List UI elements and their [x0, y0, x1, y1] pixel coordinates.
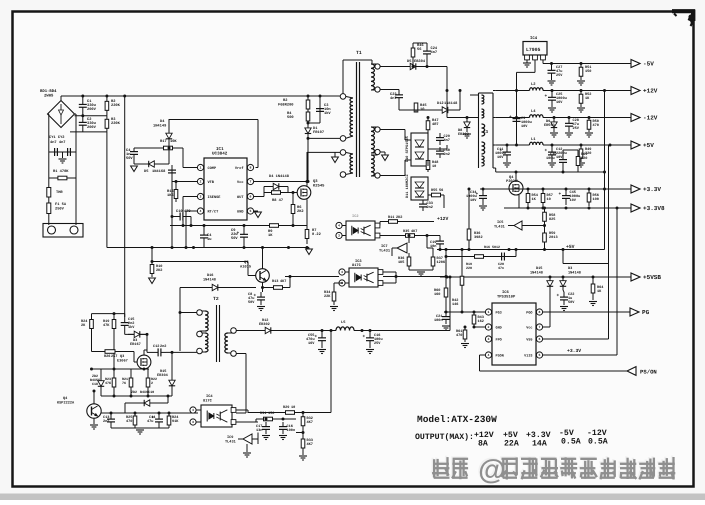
svg-text:+12V: +12V: [437, 216, 448, 222]
svg-text:TL431: TL431: [494, 225, 505, 230]
svg-text:2n2: 2n2: [427, 205, 433, 210]
svg-text:R2: R2: [283, 98, 287, 103]
svg-text:2K2: 2K2: [156, 268, 162, 273]
svg-text:+: +: [545, 94, 548, 99]
svg-text:C12: C12: [153, 344, 159, 349]
svg-text:PS/ON: PS/ON: [640, 369, 657, 376]
svg-text:4R7: 4R7: [432, 122, 439, 127]
svg-text:T1: T1: [356, 50, 362, 56]
svg-text:IC4: IC4: [530, 36, 538, 41]
svg-text:6: 6: [539, 337, 541, 341]
svg-text:R26: R26: [104, 354, 110, 359]
svg-text:13n: 13n: [256, 428, 262, 433]
svg-text:D3: D3: [568, 266, 572, 271]
svg-text:2n2: 2n2: [444, 152, 450, 157]
svg-text:4n7: 4n7: [431, 50, 438, 55]
svg-text:8: 8: [250, 166, 252, 170]
svg-text:+5VSB: +5VSB: [643, 274, 661, 281]
svg-text:1N4148: 1N4148: [530, 271, 543, 276]
svg-text:TPS3510P: TPS3510P: [497, 295, 516, 300]
svg-text:16V: 16V: [308, 341, 315, 346]
svg-text:ER304: ER304: [157, 373, 169, 378]
svg-text:4: 4: [338, 224, 340, 228]
svg-text:4: 4: [488, 353, 490, 357]
svg-text:+: +: [315, 334, 318, 339]
svg-text:470: 470: [184, 209, 191, 214]
svg-text:50V: 50V: [231, 236, 238, 241]
svg-text:+3.3V: +3.3V: [643, 186, 661, 193]
svg-text:EB304: EB304: [414, 59, 426, 64]
svg-text:L3: L3: [483, 130, 489, 135]
svg-text:100: 100: [593, 197, 599, 202]
svg-text:100u: 100u: [546, 156, 555, 161]
svg-text:D4 1N4148: D4 1N4148: [269, 174, 290, 179]
svg-text:4: 4: [192, 408, 194, 412]
svg-text:+5V: +5V: [643, 142, 654, 149]
svg-text:K2545: K2545: [313, 184, 325, 189]
svg-text:220: 220: [466, 266, 472, 271]
svg-text:220K: 220K: [111, 121, 121, 126]
svg-text:10: 10: [432, 164, 436, 169]
svg-text:D12: D12: [437, 101, 444, 106]
svg-text:VFB: VFB: [208, 180, 215, 185]
svg-text:470: 470: [126, 419, 132, 424]
svg-text:817C: 817C: [203, 399, 213, 404]
svg-text:R35: R35: [403, 229, 409, 234]
svg-text:PG: PG: [642, 309, 650, 316]
svg-text:T2: T2: [213, 296, 219, 302]
svg-text:47K: 47K: [103, 323, 110, 328]
svg-text:ER553: ER553: [544, 123, 555, 128]
svg-text:R31: R31: [260, 411, 266, 416]
svg-text:D4: D4: [160, 119, 165, 124]
svg-text:3: 3: [200, 195, 202, 199]
svg-text:825: 825: [549, 217, 555, 222]
svg-text:1K5: 1K5: [398, 260, 404, 265]
svg-text:16V: 16V: [556, 100, 563, 105]
svg-text:200V: 200V: [87, 125, 97, 130]
svg-text:2n2: 2n2: [103, 419, 109, 424]
svg-text:120K: 120K: [437, 260, 446, 265]
svg-text:14A: 14A: [532, 440, 547, 449]
svg-text:Q3: Q3: [313, 179, 318, 184]
svg-text:4K7: 4K7: [411, 229, 417, 234]
svg-text:L5: L5: [341, 320, 346, 325]
svg-text:FPO: FPO: [496, 337, 502, 342]
svg-text:ER167: ER167: [130, 342, 141, 347]
svg-text:162: 162: [478, 319, 484, 324]
svg-text:E3067: E3067: [117, 359, 128, 364]
svg-text:IC5: IC5: [497, 220, 503, 225]
svg-text:16V: 16V: [497, 155, 504, 160]
svg-text:R29: R29: [283, 405, 289, 410]
svg-text:91K: 91K: [172, 419, 179, 424]
svg-text:1kV: 1kV: [128, 325, 135, 330]
svg-text:D15: D15: [536, 266, 542, 271]
svg-text:10K: 10K: [170, 139, 177, 144]
svg-text:TL431: TL431: [225, 440, 236, 445]
svg-text:GND: GND: [496, 325, 502, 330]
svg-text:1: 1: [488, 310, 490, 314]
svg-text:220K: 220K: [111, 103, 121, 108]
svg-text:FR107: FR107: [313, 130, 324, 135]
svg-text:6: 6: [250, 195, 252, 199]
svg-text:1kV: 1kV: [324, 111, 331, 116]
svg-text:+: +: [509, 115, 512, 120]
svg-text:2W05: 2W05: [44, 94, 54, 99]
svg-text:2n2: 2n2: [160, 344, 166, 349]
svg-text:150: 150: [585, 69, 591, 74]
svg-text:D16: D16: [207, 273, 213, 278]
svg-text:L7905: L7905: [526, 47, 541, 53]
svg-text:1N4148: 1N4148: [203, 278, 216, 283]
svg-text:3: 3: [338, 234, 340, 238]
svg-text:R11: R11: [388, 215, 394, 220]
svg-text:1N4149: 1N4149: [153, 124, 166, 129]
svg-text:D11 100MZCZ: D11 100MZCZ: [405, 174, 410, 198]
svg-text:2K7: 2K7: [111, 354, 117, 359]
svg-text:B4X9C10: B4X9C10: [140, 390, 154, 395]
svg-text:OUTPUT(MAX):: OUTPUT(MAX):: [415, 433, 474, 442]
svg-text:+3.3V: +3.3V: [567, 348, 581, 354]
svg-text:76: 76: [122, 381, 126, 386]
svg-text:220: 220: [581, 156, 587, 161]
svg-text:+: +: [557, 294, 560, 299]
svg-text:2: 2: [200, 180, 202, 184]
svg-text:50V: 50V: [126, 156, 133, 161]
svg-text:D5: D5: [144, 169, 149, 174]
svg-text:KSP2222A: KSP2222A: [57, 401, 75, 406]
svg-text:C18: C18: [92, 382, 98, 387]
svg-text:R55: R55: [431, 188, 437, 193]
svg-text:100n: 100n: [434, 318, 443, 323]
svg-text:IC9: IC9: [227, 435, 233, 440]
svg-text:47n: 47n: [498, 266, 504, 271]
svg-text:PG3: PG3: [496, 310, 502, 315]
svg-text:TL431: TL431: [379, 249, 391, 254]
svg-text:IC2: IC2: [352, 214, 359, 219]
svg-text:56: 56: [439, 188, 443, 193]
svg-text:+3.3V8: +3.3V8: [643, 205, 665, 212]
svg-text:3: 3: [488, 337, 490, 341]
svg-text:ZD2: ZD2: [131, 390, 137, 395]
svg-text:1N4148: 1N4148: [568, 271, 581, 276]
svg-text:25V: 25V: [556, 73, 563, 78]
svg-text:R8 47: R8 47: [272, 198, 283, 203]
svg-text:7: 7: [250, 180, 252, 184]
svg-text:2: 2: [488, 325, 490, 329]
svg-text:146: 146: [452, 302, 458, 307]
svg-text:1: 1: [200, 166, 202, 170]
svg-text:+: +: [545, 149, 548, 154]
svg-text:D5: D5: [407, 59, 412, 64]
svg-text:3982: 3982: [474, 235, 483, 240]
svg-text:8A: 8A: [478, 440, 488, 449]
svg-text:Vcc: Vcc: [526, 325, 532, 330]
svg-text:Model:ATX-230W: Model:ATX-230W: [417, 414, 497, 425]
svg-text:OUT: OUT: [237, 195, 244, 200]
svg-text:150: 150: [268, 411, 274, 416]
svg-text:4n7: 4n7: [390, 96, 397, 101]
svg-text:P3020L: P3020L: [506, 179, 520, 184]
svg-text:3: 3: [192, 420, 194, 424]
svg-text:+: +: [363, 334, 366, 339]
svg-text:470: 470: [593, 123, 599, 128]
svg-text:5: 5: [250, 209, 252, 213]
svg-text:10: 10: [547, 197, 551, 202]
svg-text:1N4168: 1N4168: [152, 169, 166, 174]
svg-text:1K5: 1K5: [167, 193, 174, 198]
svg-text:UC3842: UC3842: [212, 152, 228, 157]
svg-text:@: @: [478, 454, 505, 485]
svg-text:47K: 47K: [105, 381, 112, 386]
svg-text:0.22: 0.22: [312, 232, 321, 237]
svg-text:L2: L2: [531, 82, 536, 87]
svg-text:56: 56: [417, 47, 421, 52]
svg-text:22A: 22A: [504, 440, 519, 449]
svg-text:1N4148: 1N4148: [444, 101, 458, 106]
svg-text:F1 5A: F1 5A: [55, 202, 67, 207]
svg-text:5: 5: [539, 353, 541, 357]
svg-text:22K: 22K: [324, 294, 331, 299]
svg-text:4: 4: [341, 270, 343, 274]
svg-text:V133: V133: [524, 353, 532, 358]
svg-text:PGO: PGO: [526, 310, 532, 315]
svg-text:+12V: +12V: [643, 88, 658, 95]
svg-text:100n: 100n: [287, 428, 296, 433]
svg-text:4n7: 4n7: [444, 138, 450, 143]
svg-text:CY1 CY2: CY1 CY2: [49, 135, 65, 140]
svg-text:V55: V55: [526, 337, 532, 342]
svg-text:4K7: 4K7: [307, 420, 313, 425]
svg-text:10: 10: [291, 405, 295, 410]
svg-text:7: 7: [539, 325, 541, 329]
svg-text:IC6: IC6: [502, 290, 510, 295]
svg-text:ER302: ER302: [259, 322, 270, 327]
svg-text:Vcc: Vcc: [237, 180, 243, 185]
svg-text:+: +: [559, 192, 562, 197]
svg-text:RT/CT: RT/CT: [208, 209, 220, 214]
svg-text:2K2: 2K2: [297, 209, 304, 214]
svg-text:C10: C10: [176, 209, 183, 214]
svg-text:250V: 250V: [55, 207, 65, 212]
svg-text:1u: 1u: [207, 237, 211, 242]
svg-text:200V: 200V: [87, 107, 97, 112]
svg-text:10V: 10V: [570, 198, 577, 203]
svg-text:ISENSE: ISENSE: [208, 195, 221, 200]
svg-text:50V: 50V: [568, 300, 575, 305]
svg-text:4: 4: [200, 209, 202, 213]
svg-text:47u: 47u: [147, 419, 153, 424]
svg-text:BD1-BD4: BD1-BD4: [40, 89, 57, 94]
svg-text:-5V: -5V: [643, 61, 654, 68]
svg-text:500: 500: [287, 115, 294, 120]
svg-text:2: 2: [151, 381, 153, 386]
svg-text:0.5A: 0.5A: [588, 438, 608, 447]
svg-text:817C: 817C: [352, 263, 362, 268]
svg-text:10V: 10V: [470, 198, 477, 203]
svg-text:L4: L4: [531, 109, 536, 114]
svg-text:470: 470: [456, 333, 462, 338]
svg-text:IC7: IC7: [381, 244, 388, 249]
svg-text:THR: THR: [56, 190, 63, 195]
svg-text:2K2: 2K2: [396, 215, 402, 220]
svg-text:COMP: COMP: [208, 166, 217, 171]
svg-text:R17: R17: [160, 139, 167, 144]
svg-text:R1 470K: R1 470K: [53, 169, 69, 174]
svg-text:Vref: Vref: [235, 166, 244, 171]
svg-text:A1015: A1015: [240, 265, 252, 270]
svg-text:L1: L1: [531, 137, 536, 142]
svg-text:PSON: PSON: [496, 353, 504, 358]
svg-text:8: 8: [539, 310, 541, 314]
svg-text:25V: 25V: [374, 341, 381, 346]
svg-text:R13: R13: [272, 279, 278, 284]
svg-text:25V: 25V: [573, 126, 580, 131]
svg-text:160: 160: [434, 292, 440, 297]
svg-text:50V: 50V: [248, 300, 255, 305]
svg-text:F68R200: F68R200: [278, 103, 294, 108]
svg-text:4K7: 4K7: [280, 279, 286, 284]
svg-text:4K7: 4K7: [307, 442, 313, 447]
svg-text:1K: 1K: [268, 233, 273, 238]
svg-text:10V: 10V: [521, 124, 528, 129]
svg-text:Q3: Q3: [120, 354, 124, 359]
svg-text:4n7 4n7: 4n7 4n7: [50, 140, 66, 145]
svg-text:0.5A: 0.5A: [561, 438, 581, 447]
svg-text:-12V: -12V: [643, 115, 658, 122]
svg-text:2013: 2013: [549, 235, 558, 240]
svg-text:GND: GND: [237, 209, 243, 214]
svg-text:IC4: IC4: [206, 394, 213, 399]
